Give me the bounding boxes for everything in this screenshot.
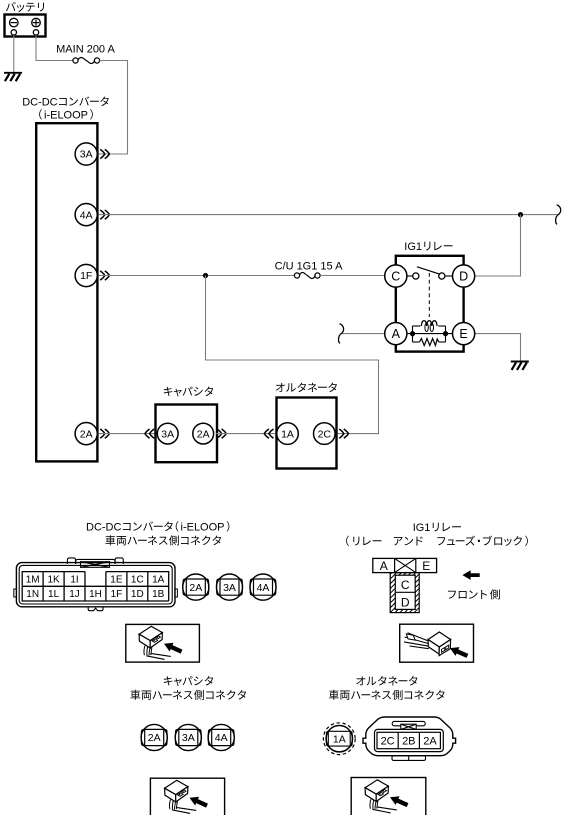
svg-text:C/U 1G1 15 A: C/U 1G1 15 A	[275, 260, 344, 272]
relay block A-X-E strip	[373, 558, 437, 572]
alternator connector top tab	[392, 721, 425, 725]
svg-text:MAIN 200 A: MAIN 200 A	[56, 44, 115, 56]
svg-text:1I: 1I	[70, 575, 78, 586]
wire battery plus to fuse	[36, 35, 73, 60]
svg-text:D: D	[459, 269, 468, 283]
DC-DC latch lock bowtie	[81, 562, 110, 568]
DC-DC connector side notches	[14, 589, 17, 597]
terminal 3A	[75, 143, 97, 165]
svg-text:3A: 3A	[80, 149, 93, 161]
IG1 relay removal icon box	[400, 624, 474, 662]
battery B1	[5, 15, 46, 37]
wire E to ground	[475, 334, 521, 362]
svg-text:1F: 1F	[111, 589, 123, 600]
relay contact D	[453, 265, 475, 287]
terminal 2A	[75, 423, 97, 445]
svg-text:C: C	[391, 269, 400, 283]
DC-DC connector housing	[16, 563, 175, 607]
alternator label	[276, 383, 285, 392]
relay switch contacts	[413, 273, 419, 279]
svg-text:1N: 1N	[26, 589, 39, 600]
capacitor label	[164, 387, 173, 396]
svg-text:2A: 2A	[148, 732, 161, 744]
svg-text:1B: 1B	[152, 589, 165, 600]
alternator terminal 1A	[269, 429, 274, 438]
svg-text:E: E	[422, 559, 430, 573]
svg-text:2A: 2A	[423, 736, 437, 748]
DC-DC connector latch	[67, 558, 75, 564]
svg-text:1A: 1A	[152, 575, 165, 586]
svg-text:A: A	[380, 559, 388, 573]
alternator removal icon box	[351, 778, 426, 815]
alternator cells 2C 2B 2A	[377, 732, 440, 748]
relay contact E	[453, 323, 475, 345]
continuation right	[556, 205, 561, 225]
svg-text:4A: 4A	[215, 732, 228, 744]
svg-text:1M: 1M	[26, 575, 40, 586]
capacitor C1 box	[156, 405, 218, 463]
capacitor grommet 4A	[208, 724, 234, 750]
svg-text:3A: 3A	[182, 732, 195, 744]
svg-text:D: D	[401, 596, 410, 610]
svg-text:C: C	[401, 578, 410, 592]
wire 4A line	[99, 214, 559, 216]
junction on 4A line	[518, 212, 523, 217]
svg-text:E: E	[459, 327, 467, 341]
ground relay E	[511, 361, 529, 363]
DC-DC harness grommet 2A	[183, 574, 209, 600]
svg-text:1H: 1H	[89, 589, 102, 600]
svg-text:DC-DC: DC-DC	[22, 97, 57, 109]
relay coil-resistor network	[412, 326, 414, 342]
alternator connector housing	[363, 717, 456, 756]
ground battery	[4, 72, 22, 74]
svg-text:DC-DC: DC-DC	[86, 522, 121, 534]
svg-text:1F: 1F	[80, 270, 92, 282]
svg-text:IG1: IG1	[413, 522, 431, 534]
wire C to contact stub	[407, 275, 413, 277]
capacitor grommet 3A	[175, 724, 201, 750]
relay block hatched socket	[390, 573, 419, 613]
relay coil L1	[421, 321, 437, 326]
svg-text:2C: 2C	[318, 428, 332, 440]
svg-text:4A: 4A	[80, 209, 93, 221]
svg-text:2A: 2A	[189, 582, 202, 594]
relay switch blade	[417, 267, 440, 275]
svg-text:1J: 1J	[69, 589, 80, 600]
wire D to 4A line	[475, 215, 521, 276]
svg-text:1A: 1A	[333, 733, 346, 745]
alternator grommet 1A	[323, 723, 355, 755]
svg-text:2B: 2B	[402, 736, 415, 748]
svg-text:3A: 3A	[223, 582, 236, 594]
continuation left at A	[338, 324, 343, 344]
front-side label	[448, 591, 456, 599]
fuse MAIN 200 A	[73, 58, 78, 63]
terminal 1F	[75, 264, 97, 286]
wire junction to alternator 2C	[206, 276, 379, 434]
relay actuation dashed link	[428, 273, 430, 317]
battery label	[6, 2, 16, 11]
wire fuse to relay C	[320, 275, 384, 277]
DC-DC connector bottom tab	[88, 607, 103, 611]
junction 1F line	[203, 273, 208, 278]
wire relay A to E	[407, 333, 453, 335]
svg-text:1K: 1K	[47, 575, 60, 586]
svg-text:1E: 1E	[110, 575, 123, 586]
junction E-side of coil	[443, 331, 448, 336]
wire capacitor to alternator	[216, 433, 276, 435]
capacitor grommet 2A	[141, 724, 167, 750]
capacitor heading	[164, 676, 173, 685]
junction A-side of coil	[410, 331, 415, 336]
wire 2A to capacitor	[99, 433, 156, 435]
relay contact A	[385, 323, 407, 345]
svg-text:A: A	[392, 327, 401, 341]
DC-DC removal icon box	[126, 624, 200, 662]
DC-DC pin grid	[22, 572, 169, 601]
svg-text:1L: 1L	[48, 589, 60, 600]
svg-text:4A: 4A	[257, 582, 270, 594]
fuse C/U 1G1 15 A	[294, 273, 299, 278]
wire fuse to terminal 3A	[99, 61, 128, 155]
svg-text:2A: 2A	[80, 428, 93, 440]
wire A continuation	[342, 333, 385, 335]
alternator terminal 2C	[314, 423, 336, 445]
svg-text:i-ELOOP: i-ELOOP	[44, 110, 88, 122]
svg-text:1A: 1A	[281, 428, 294, 440]
relay contact C	[385, 265, 407, 287]
alternator heading	[356, 676, 365, 685]
front-side arrow	[462, 570, 479, 580]
svg-text:2A: 2A	[197, 428, 210, 440]
wire contact to D stub	[445, 275, 453, 277]
wire 1F to fuse	[99, 275, 295, 277]
alternator connector bottom tabs	[392, 756, 426, 761]
DC-DC harness grommet 4A	[250, 574, 276, 600]
terminal 4A	[75, 204, 97, 226]
relay resistor R1	[420, 339, 439, 346]
svg-text:1D: 1D	[131, 589, 144, 600]
DC-DC converter U1 box	[36, 123, 97, 461]
alternator cell holder	[375, 729, 444, 751]
relay K1 box	[396, 256, 464, 352]
svg-text:1C: 1C	[131, 575, 144, 586]
svg-text:i-ELOOP: i-ELOOP	[181, 522, 225, 534]
relay block C cell	[395, 591, 415, 593]
capacitor terminal 2A	[193, 423, 214, 444]
svg-text:IG1: IG1	[404, 241, 422, 253]
wire battery minus to ground	[13, 35, 15, 73]
capacitor terminal 3A	[150, 429, 155, 438]
alternator G1 box	[277, 398, 337, 469]
DC-DC harness grommet 3A	[216, 574, 242, 600]
svg-text:2C: 2C	[381, 736, 395, 748]
alternator latch bowtie	[401, 724, 416, 729]
capacitor removal icon box	[150, 778, 224, 815]
svg-text:3A: 3A	[161, 428, 174, 440]
